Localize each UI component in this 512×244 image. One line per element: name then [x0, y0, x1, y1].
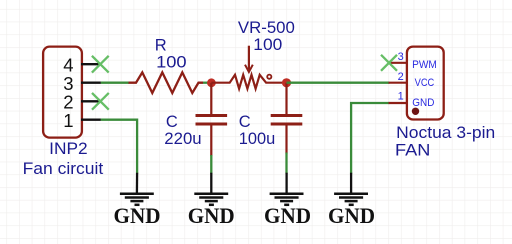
- svg-text:100u: 100u: [239, 130, 275, 148]
- svg-text:GND: GND: [188, 203, 235, 228]
- label INP2: [49, 140, 87, 158]
- svg-text:C: C: [166, 113, 178, 131]
- ground GND2 symbol: [194, 173, 228, 205]
- svg-text:GND: GND: [328, 203, 375, 228]
- J1 pin 4: [63, 55, 101, 76]
- svg-text:220u: 220u: [164, 130, 201, 148]
- no-connect X on J1 pin 2: [92, 93, 109, 110]
- J1 pin 1: [63, 110, 101, 131]
- svg-text:VCC: VCC: [415, 77, 435, 89]
- capacitor C1 220u: [196, 83, 228, 156]
- wire junction B to FAN VCC: [287, 82, 390, 84]
- FAN pin 1 GND: [389, 91, 435, 109]
- svg-text:GND: GND: [412, 97, 434, 109]
- FAN pin 2 VCC: [389, 71, 435, 89]
- wire C2 to ground: [285, 153, 287, 174]
- svg-text:Noctua 3-pin: Noctua 3-pin: [396, 124, 495, 142]
- svg-text:2: 2: [398, 71, 404, 83]
- label GND (3): [264, 203, 311, 228]
- label 220u: [164, 130, 201, 148]
- wire J1 pin1 to ground GND1: [101, 120, 137, 174]
- ground GND3 symbol: [270, 173, 304, 205]
- label R: [155, 36, 167, 54]
- svg-text:FAN: FAN: [395, 141, 430, 159]
- resistor R: [129, 72, 204, 93]
- no-connect X on FAN pin 3: [381, 55, 397, 71]
- svg-text:1: 1: [63, 110, 73, 131]
- ground GND4 symbol: [334, 173, 368, 205]
- svg-text:R: R: [155, 36, 167, 54]
- label GND (2): [188, 203, 235, 228]
- svg-text:3: 3: [398, 51, 404, 63]
- potentiometer VR-500: [211, 75, 282, 89]
- svg-text:1: 1: [398, 91, 404, 103]
- potentiometer wiper arrow: [245, 46, 253, 72]
- connector FAN body: [407, 47, 444, 120]
- junction node A: [207, 78, 216, 87]
- label Noctua 3-pin: [396, 124, 495, 142]
- no-connect X on J1 pin 4: [92, 56, 109, 73]
- label C (C2): [239, 113, 251, 131]
- svg-text:100: 100: [156, 54, 187, 72]
- potentiometer terminal circle: [267, 75, 271, 79]
- wire J1 pin3 to resistor: [101, 82, 129, 84]
- label 100 (R value): [156, 54, 187, 72]
- connector J1 INP2 body: [43, 47, 82, 138]
- label FAN: [395, 141, 430, 159]
- svg-text:100: 100: [253, 36, 282, 54]
- svg-text:VR-500: VR-500: [238, 19, 295, 37]
- FAN pin 3 PWM: [389, 51, 437, 71]
- label GND (4): [328, 203, 375, 228]
- label Fan circuit: [23, 160, 104, 178]
- wire FAN GND pin to ground GND4: [351, 103, 389, 174]
- label VR-500: [238, 19, 295, 37]
- svg-text:GND: GND: [264, 203, 311, 228]
- svg-text:C: C: [239, 113, 251, 131]
- J1 pin 2: [63, 92, 101, 113]
- FAN polarity dot: [412, 108, 419, 115]
- label 100 (VR value): [253, 36, 282, 54]
- ground GND1 symbol: [120, 173, 154, 205]
- label C (C1): [166, 113, 178, 131]
- label GND (1): [114, 203, 161, 228]
- junction node B: [282, 78, 291, 87]
- wire C1 to ground: [210, 155, 212, 174]
- svg-text:GND: GND: [114, 203, 161, 228]
- label 100u: [239, 130, 275, 148]
- wire resistor to junction A: [203, 82, 211, 84]
- svg-text:INP2: INP2: [49, 140, 87, 158]
- svg-text:Fan circuit: Fan circuit: [23, 160, 104, 178]
- capacitor C2 100u: [271, 83, 303, 154]
- svg-text:PWM: PWM: [412, 59, 437, 71]
- J1 pin 3: [63, 73, 101, 94]
